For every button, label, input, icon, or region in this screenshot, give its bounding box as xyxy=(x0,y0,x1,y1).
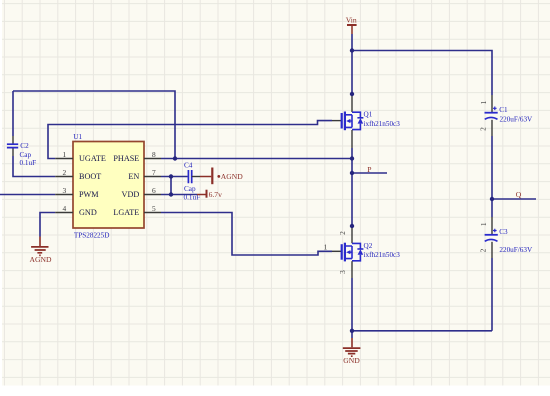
pin 6 VDD xyxy=(144,194,161,196)
power port AGND (bar) xyxy=(200,168,243,185)
svg-text:BOOT: BOOT xyxy=(79,172,101,181)
svg-text:AGND: AGND xyxy=(30,255,52,264)
wire right rail C3 section xyxy=(491,199,493,217)
junction bottom GND xyxy=(350,329,354,333)
svg-text:AGND: AGND xyxy=(221,172,243,181)
svg-text:C3: C3 xyxy=(499,228,508,236)
capacitor C1 220uF/63V xyxy=(479,95,534,136)
capacitor C2 xyxy=(7,136,36,167)
ground AGND xyxy=(30,237,52,264)
svg-text:1: 1 xyxy=(63,150,67,159)
wire PHASE pin8 to phase node xyxy=(161,158,352,160)
svg-text:4: 4 xyxy=(63,204,67,213)
junction VDD xyxy=(169,192,173,196)
svg-text:3: 3 xyxy=(338,270,347,274)
svg-text:2: 2 xyxy=(63,168,67,177)
wire GND pin4 to AGND xyxy=(40,213,55,237)
svg-text:7: 7 xyxy=(152,168,156,177)
svg-text:PWM: PWM xyxy=(79,190,99,199)
ground GND xyxy=(343,331,361,365)
transistor Q2 ixfh21n50c3 xyxy=(324,226,401,278)
wire top rail to right column xyxy=(352,51,492,96)
svg-text:GND: GND xyxy=(343,356,360,365)
svg-text:EN: EN xyxy=(128,172,139,181)
wire C2 bottom to BOOT pin 2 xyxy=(13,156,55,177)
svg-text:6: 6 xyxy=(152,186,156,195)
svg-text:PHASE: PHASE xyxy=(113,154,139,163)
transistor Q1 ixfh21n50c3 xyxy=(332,94,400,148)
junction Q1 drain xyxy=(350,92,354,96)
wire P stub xyxy=(352,172,387,174)
junction at Vin rail split xyxy=(350,48,354,52)
svg-text:Q: Q xyxy=(516,190,522,199)
svg-text:C4: C4 xyxy=(184,161,193,169)
wire C4 right lead xyxy=(192,176,200,178)
svg-text:ixfh21n50c3: ixfh21n50c3 xyxy=(364,120,401,128)
wire Q2 source to bottom rail xyxy=(351,278,353,331)
svg-text:5: 5 xyxy=(152,204,156,213)
pin 5 LGATE xyxy=(144,212,161,214)
wire Q stub xyxy=(492,198,536,200)
wire Q1 source down through P to Q2 drain xyxy=(351,148,353,226)
junction phase node xyxy=(350,156,354,160)
svg-text:VDD: VDD xyxy=(122,190,140,199)
svg-text:Cap: Cap xyxy=(20,151,32,159)
wire bottom rail xyxy=(352,330,492,332)
wire right rail bottom section xyxy=(491,258,493,331)
svg-text:GND: GND xyxy=(79,208,97,217)
svg-text:P: P xyxy=(367,165,371,174)
wire EN pin7 to C4 xyxy=(161,176,188,178)
wire LGATE pin5 to Q2 gate xyxy=(161,213,332,256)
power port Vin xyxy=(346,16,357,34)
pin 4 GND xyxy=(55,212,73,214)
wire Vin down to Q1 drain xyxy=(351,34,353,94)
junction Q xyxy=(490,197,494,201)
svg-text:1: 1 xyxy=(324,242,328,251)
wire BOOT: C2 top loop to PHASE column xyxy=(13,91,175,159)
svg-text:Q1: Q1 xyxy=(364,111,373,119)
junction EN xyxy=(169,174,173,178)
svg-text:2: 2 xyxy=(338,231,347,235)
wire VDD pin6 to 6.7v port xyxy=(161,194,197,196)
svg-text:TPS28225D: TPS28225D xyxy=(74,232,110,240)
capacitor C4 xyxy=(184,161,201,201)
svg-text:Vin: Vin xyxy=(346,16,357,25)
svg-text:LGATE: LGATE xyxy=(113,208,139,217)
svg-text:UGATE: UGATE xyxy=(79,154,106,163)
svg-text:C1: C1 xyxy=(499,106,508,114)
svg-text:8: 8 xyxy=(152,150,156,159)
svg-text:2: 2 xyxy=(478,248,487,252)
wire EN-VDD link xyxy=(170,177,172,195)
svg-text:0.1uF: 0.1uF xyxy=(20,159,37,167)
svg-text:Cap: Cap xyxy=(184,185,196,193)
wire UGATE pin1 to Q1 gate xyxy=(48,121,332,159)
svg-text:1: 1 xyxy=(479,100,488,104)
power port 6.7v (bar) xyxy=(197,190,222,199)
svg-text:6.7v: 6.7v xyxy=(209,190,222,199)
junction P xyxy=(350,171,354,175)
IC U1 TPS28225D xyxy=(55,133,161,239)
pin 1 UGATE xyxy=(55,158,73,160)
svg-text:220uF/63V: 220uF/63V xyxy=(500,116,534,124)
junction Q2 drain xyxy=(350,224,354,228)
pin 3 PWM xyxy=(55,194,73,196)
pin 2 BOOT xyxy=(55,176,73,178)
wire right rail C1 section xyxy=(491,136,493,199)
junction BOOT/PHASE column xyxy=(173,156,177,160)
pin 7 EN xyxy=(144,176,161,178)
pin 8 PHASE xyxy=(144,158,161,160)
svg-text:2: 2 xyxy=(479,127,488,131)
capacitor C3 220uF/63V xyxy=(478,217,533,258)
svg-text:C2: C2 xyxy=(20,142,29,150)
svg-text:220uF/63V: 220uF/63V xyxy=(499,246,533,254)
svg-text:3: 3 xyxy=(63,186,67,195)
svg-text:U1: U1 xyxy=(73,133,82,141)
wire PWM from left edge xyxy=(0,194,55,196)
svg-text:1: 1 xyxy=(479,222,488,226)
svg-text:Q2: Q2 xyxy=(364,242,373,250)
svg-text:ixfh21n50c3: ixfh21n50c3 xyxy=(364,251,401,259)
wire C2 top lead xyxy=(12,91,14,136)
